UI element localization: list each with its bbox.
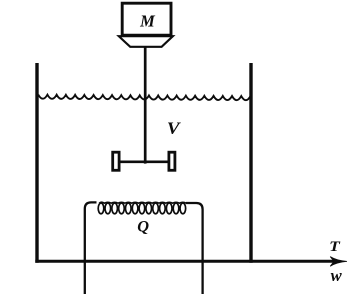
svg-text:T: T bbox=[329, 239, 341, 255]
tank bottom / axis line bbox=[35, 260, 338, 263]
liquid surface wavy line bbox=[38, 95, 250, 101]
tank left wall bbox=[35, 63, 38, 263]
heater left lead wire bbox=[85, 202, 97, 294]
stirrer crossbar bbox=[120, 161, 169, 164]
tank right wall bbox=[249, 63, 252, 263]
axis arrowhead bbox=[330, 257, 347, 267]
svg-text:V: V bbox=[167, 119, 182, 138]
motor M box bbox=[122, 3, 171, 35]
stirrer shaft bbox=[144, 47, 147, 164]
svg-text:M: M bbox=[139, 12, 156, 31]
svg-text:Q: Q bbox=[137, 217, 149, 236]
stirrer left paddle bbox=[113, 152, 119, 170]
heater coil loops bbox=[98, 202, 186, 214]
svg-text:w: w bbox=[331, 266, 343, 285]
stirrer right paddle bbox=[169, 152, 175, 170]
motor trapezoid housing bbox=[119, 36, 173, 47]
heater right lead wire bbox=[186, 203, 203, 294]
